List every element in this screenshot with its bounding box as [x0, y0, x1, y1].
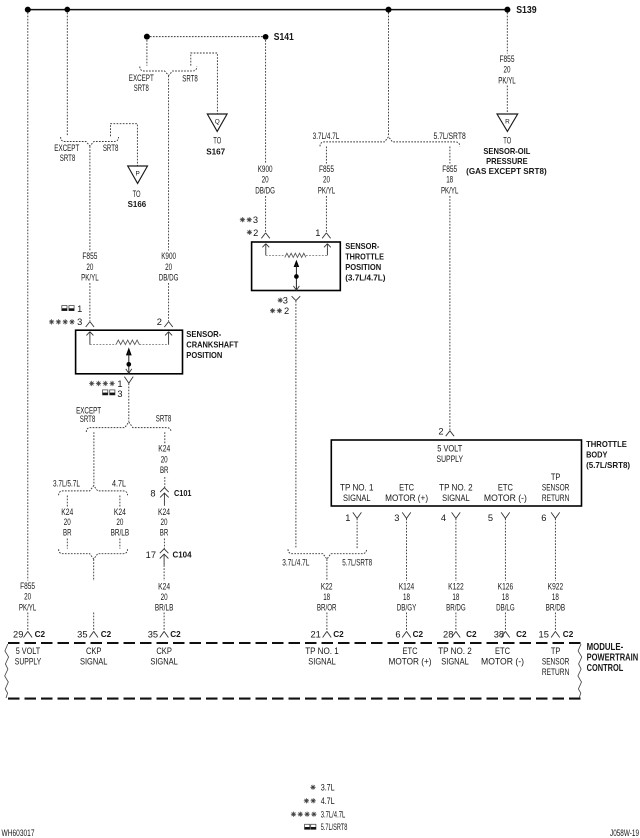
svg-text:PK/YL: PK/YL: [81, 273, 99, 283]
svg-text:15: 15: [539, 629, 549, 639]
svg-text:20: 20: [116, 517, 123, 527]
crank wiper bottom chevron: [126, 369, 132, 373]
wire: brace5 right output down to brace6: [119, 496, 121, 549]
node: junction dot at x388 on rail: [386, 7, 392, 13]
svg-text:3.7L: 3.7L: [321, 782, 335, 792]
svg-text:BR/OR: BR/OR: [317, 603, 337, 613]
svg-text:POSITION: POSITION: [345, 262, 381, 272]
svg-text:S141: S141: [274, 32, 294, 43]
wire W14: C101 to C104: [163, 504, 165, 549]
svg-text:SRT8: SRT8: [156, 414, 172, 424]
svg-text:CKP: CKP: [156, 646, 172, 656]
wire W11: crank output down to brace4: [128, 383, 130, 421]
brace5: split 3.7L/5.7L vs 4.7L: [59, 486, 128, 496]
wire W17: brace7 output down to terminal 21: [326, 559, 328, 631]
terminal: TB pin1 connector below box: [353, 512, 362, 518]
svg-text:35: 35: [77, 629, 87, 639]
svg-text:(5.7L/SRT8): (5.7L/SRT8): [586, 460, 630, 470]
svg-text:21: 21: [310, 629, 320, 639]
svg-text:MOTOR (-): MOTOR (-): [481, 656, 524, 666]
svg-text:DB/DG: DB/DG: [255, 185, 275, 195]
svg-text:SRT8: SRT8: [80, 414, 96, 424]
svg-text:BR/LB: BR/LB: [155, 603, 174, 613]
svg-text:18: 18: [323, 592, 330, 602]
svg-text:20: 20: [161, 592, 168, 602]
legend two boxes 5.7L/SRT8: [305, 824, 316, 829]
resistor zigzag TP: [285, 253, 306, 257]
wire: TB pin3 down to terminal 6: [406, 519, 408, 632]
svg-text:PK/YL: PK/YL: [441, 185, 459, 195]
svg-text:R: R: [505, 118, 510, 125]
wire W9: brace1 center down to crankshaft pin2: [168, 76, 170, 322]
triangle P: off-page connector to S166: [128, 166, 148, 183]
svg-text:ETC: ETC: [403, 646, 419, 656]
svg-text:SIGNAL: SIGNAL: [442, 493, 470, 503]
svg-text:4.7L: 4.7L: [112, 478, 126, 488]
svg-text:1: 1: [345, 513, 350, 523]
wire: brace3 right output to throttle body pin2: [449, 147, 451, 431]
svg-text:17: 17: [146, 550, 156, 560]
svg-text:5.7L/SRT8: 5.7L/SRT8: [433, 131, 465, 141]
svg-text:TO: TO: [213, 135, 221, 145]
svg-text:20: 20: [323, 175, 330, 185]
svg-text:SENSOR-OIL: SENSOR-OIL: [483, 146, 530, 156]
svg-text:18: 18: [452, 592, 459, 602]
svg-text:S139: S139: [516, 5, 537, 16]
svg-text:SRT8: SRT8: [182, 73, 198, 83]
svg-text:BR/LB: BR/LB: [111, 528, 130, 538]
wire W12: brace6 output down to terminal 35: [93, 559, 95, 631]
svg-text:(3.7L/4.7L): (3.7L/4.7L): [345, 273, 386, 283]
svg-text:3: 3: [394, 513, 399, 523]
terminal: TB pin3 connector below box: [402, 512, 411, 518]
svg-text:C101: C101: [174, 488, 192, 498]
svg-text:C104: C104: [173, 550, 192, 560]
svg-text:1: 1: [315, 228, 320, 238]
svg-text:THROTTLE: THROTTLE: [586, 439, 627, 449]
terminal 35 C2 (CKP right): [160, 631, 169, 637]
svg-text:2: 2: [438, 427, 443, 437]
svg-text:F855: F855: [319, 164, 334, 174]
connector C101 inline: [160, 488, 169, 504]
svg-text:PK/YL: PK/YL: [318, 185, 336, 195]
svg-text:SIGNAL: SIGNAL: [308, 656, 336, 666]
terminal: TB pin6 connector below box: [551, 512, 560, 518]
crank internal pin arrow right: [165, 332, 172, 345]
svg-text:K124: K124: [399, 582, 415, 592]
svg-text:TP NO. 2: TP NO. 2: [438, 646, 472, 656]
svg-text:SENSOR-: SENSOR-: [186, 329, 221, 339]
svg-text:C2: C2: [170, 629, 181, 639]
svg-text:POSITION: POSITION: [186, 350, 222, 360]
node: S141 dot right: [263, 34, 269, 40]
wire: brace3 left output to TP sensor pin1: [325, 147, 327, 233]
terminal 38 C2: [501, 631, 510, 637]
svg-text:MOTOR (+): MOTOR (+): [385, 493, 428, 503]
svg-text:ETC: ETC: [399, 483, 415, 493]
svg-text:K22: K22: [321, 582, 333, 592]
svg-text:SIGNAL: SIGNAL: [150, 656, 178, 666]
svg-text:18: 18: [403, 592, 410, 602]
svg-text:SIGNAL: SIGNAL: [80, 656, 108, 666]
svg-text:PK/YL: PK/YL: [498, 75, 516, 85]
svg-text:1: 1: [117, 379, 122, 389]
terminal: TB pin5 connector below box: [501, 512, 510, 518]
svg-text:K126: K126: [498, 582, 514, 592]
marker: 5.7L pin 1 (two boxes) at crank pin3: [62, 306, 74, 311]
crank wiper arrow: [126, 347, 132, 355]
svg-text:8: 8: [150, 489, 155, 499]
brace4: split EXCEPT SRT8 / SRT8 below crank: [86, 422, 171, 432]
wire W15: C104 down to terminal 35 right: [163, 565, 165, 631]
svg-text:P: P: [135, 170, 139, 177]
module PCM: torn right edge: [578, 644, 582, 698]
svg-text:4: 4: [441, 513, 446, 523]
svg-text:20: 20: [161, 454, 168, 464]
svg-text:C2: C2: [413, 629, 424, 639]
svg-text:CRANKSHAFT: CRANKSHAFT: [186, 339, 239, 349]
svg-text:20: 20: [165, 262, 172, 272]
TP internal horizontal: [266, 254, 285, 256]
svg-text:ETC: ETC: [498, 483, 514, 493]
marker: one star pin 2 at TP sensor: [247, 230, 252, 235]
marker: 3.7L/4.7L pin 3 (four stars) at crank pin3: [49, 319, 54, 324]
svg-text:DB/LG: DB/LG: [496, 603, 515, 613]
svg-text:C2: C2: [563, 629, 574, 639]
svg-text:18: 18: [446, 175, 453, 185]
wire W4: from S139 to oil pressure sensor: [506, 13, 508, 114]
terminal: TB pin2 connector: [446, 431, 454, 436]
svg-text:2: 2: [253, 228, 258, 238]
terminal: crank output connector below box: [124, 377, 133, 384]
svg-text:SRT8: SRT8: [60, 153, 76, 163]
svg-text:F855: F855: [442, 164, 457, 174]
svg-text:SUPPLY: SUPPLY: [15, 656, 42, 666]
svg-text:F855: F855: [500, 54, 515, 64]
svg-text:3.7L/4.7L: 3.7L/4.7L: [321, 809, 346, 819]
svg-text:SENSOR-: SENSOR-: [345, 241, 379, 251]
terminal 21 C2: [323, 631, 332, 637]
svg-text:TP NO. 1: TP NO. 1: [305, 646, 339, 656]
brace7: merge 3.7L/4.7L with 5.7L/SRT8: [288, 549, 367, 559]
svg-text:3: 3: [117, 389, 122, 399]
wire: brace5 left output down to brace6: [66, 496, 68, 549]
svg-text:MOTOR (+): MOTOR (+): [389, 656, 432, 666]
svg-text:CONTROL: CONTROL: [587, 663, 624, 674]
legend four stars 3.7L/4.7L: [291, 812, 296, 817]
node: junction dot second on rail: [64, 7, 70, 13]
svg-text:PRESSURE: PRESSURE: [486, 156, 528, 166]
svg-text:RETURN: RETURN: [542, 493, 570, 503]
svg-text:3.7L/4.7L: 3.7L/4.7L: [313, 131, 340, 141]
svg-text:35: 35: [148, 629, 158, 639]
svg-text:29: 29: [13, 629, 23, 639]
wire W3: from rail to engine split: [388, 13, 390, 137]
marker: one star pin 3 below TP: [278, 298, 283, 303]
svg-text:F855: F855: [82, 251, 97, 261]
svg-text:6: 6: [541, 513, 546, 523]
svg-text:3: 3: [283, 295, 288, 305]
svg-text:POWERTRAIN: POWERTRAIN: [587, 652, 639, 663]
wire: TB pin5 down to terminal 38: [504, 519, 506, 632]
svg-text:K24: K24: [158, 582, 170, 592]
svg-text:38: 38: [494, 629, 504, 639]
svg-text:DB/DG: DB/DG: [159, 273, 179, 283]
terminal: TP output connector below box: [292, 296, 301, 300]
svg-text:TP NO. 2: TP NO. 2: [439, 483, 473, 493]
svg-text:C2: C2: [333, 629, 344, 639]
svg-text:6: 6: [395, 629, 400, 639]
svg-text:TP: TP: [551, 646, 561, 656]
svg-text:EXCEPT: EXCEPT: [54, 143, 79, 153]
wire W8: brace2 right branch to P/S166: [111, 124, 138, 166]
svg-text:K900: K900: [258, 164, 273, 174]
svg-text:SIGNAL: SIGNAL: [441, 656, 469, 666]
svg-text:K24: K24: [114, 507, 126, 517]
svg-text:BR: BR: [160, 528, 169, 538]
svg-text:C2: C2: [466, 629, 477, 639]
terminal 6 C2: [402, 631, 411, 637]
svg-text:TO: TO: [503, 135, 511, 145]
node S139: splice dot: [504, 7, 510, 13]
marker: two stars pin 3 at TP sensor: [240, 217, 245, 222]
svg-text:BR: BR: [63, 528, 72, 538]
svg-text:20: 20: [262, 175, 269, 185]
svg-text:20: 20: [64, 517, 71, 527]
marker: four stars pin 1 below crank: [89, 381, 94, 386]
svg-text:TO: TO: [133, 189, 141, 199]
brace2: merge EXCEPT SRT8 / SRT8 upper left: [61, 137, 119, 146]
svg-text:SIGNAL: SIGNAL: [343, 493, 371, 503]
svg-text:5 VOLT: 5 VOLT: [16, 646, 41, 656]
svg-text:DB/GY: DB/GY: [397, 603, 417, 613]
terminal: crank pin3 connector: [86, 322, 94, 327]
svg-text:28: 28: [443, 629, 453, 639]
svg-text:C2: C2: [101, 629, 112, 639]
svg-text:BODY: BODY: [586, 449, 608, 459]
svg-text:S167: S167: [206, 147, 225, 157]
svg-text:5 VOLT: 5 VOLT: [437, 443, 463, 453]
marker: two stars pin 2 below TP: [270, 308, 275, 313]
svg-text:BR/DG: BR/DG: [446, 603, 466, 613]
svg-text:RETURN: RETURN: [542, 667, 570, 677]
terminal: TB pin4 connector below box: [452, 512, 461, 518]
wire: TB pin4 down to terminal 28: [455, 519, 457, 632]
svg-text:BR: BR: [160, 465, 169, 475]
svg-text:PK/YL: PK/YL: [19, 603, 37, 613]
svg-text:TP: TP: [551, 472, 561, 482]
svg-text:Q: Q: [215, 118, 220, 125]
svg-text:2: 2: [157, 317, 162, 327]
svg-text:J058W-19: J058W-19: [610, 828, 639, 838]
wire W1: left 5V supply wire x=28: [27, 13, 29, 632]
svg-text:4.7L: 4.7L: [321, 796, 335, 806]
svg-text:F855: F855: [20, 581, 35, 591]
connector C104 inline: [160, 549, 169, 565]
svg-text:TP NO. 1: TP NO. 1: [340, 483, 374, 493]
svg-text:SRT8: SRT8: [103, 143, 119, 153]
wire W13: brace4 right output down to C101: [164, 432, 166, 487]
terminal 15 C2: [551, 631, 560, 637]
module PCM: dashed top border: [8, 642, 581, 644]
brace1: merge EXCEPT SRT8 / SRT8 near S141: [140, 67, 197, 76]
crank internal pin arrow left: [86, 332, 93, 345]
wire W5: from S141 left dot down to brace1: [146, 40, 148, 66]
svg-text:3.7L/5.7L: 3.7L/5.7L: [53, 478, 80, 488]
marker: two boxes pin 3 below crank: [103, 390, 115, 395]
svg-text:MODULE-: MODULE-: [587, 642, 624, 653]
wire W10: brace2 center down to crankshaft pin3: [89, 146, 91, 321]
svg-text:SRT8: SRT8: [134, 83, 149, 93]
crank internal horizontal: [90, 344, 116, 346]
svg-text:20: 20: [24, 592, 31, 602]
svg-text:K24: K24: [158, 444, 170, 454]
wire: TB pin6 down to terminal 15: [554, 519, 556, 632]
sensor crankshaft position: box: [76, 330, 183, 374]
svg-text:3.7L/4.7L: 3.7L/4.7L: [282, 558, 309, 568]
svg-text:MOTOR (-): MOTOR (-): [484, 493, 527, 503]
svg-text:3: 3: [253, 215, 258, 225]
wire W16: TP output down to brace7: [295, 301, 297, 549]
node S141: splice dot left: [144, 34, 150, 40]
svg-text:20: 20: [86, 262, 93, 272]
svg-text:1: 1: [77, 304, 82, 314]
svg-text:K900: K900: [161, 251, 176, 261]
svg-text:18: 18: [502, 592, 509, 602]
terminal: crank pin2 connector: [164, 322, 172, 327]
terminal 35 C2 (CKP): [89, 631, 98, 637]
wire: brace4 left output down to brace5: [93, 432, 95, 485]
TP wiper bottom chevron: [293, 286, 299, 290]
module PCM: torn left edge: [5, 644, 9, 698]
throttle body: box: [331, 440, 581, 506]
svg-text:20: 20: [504, 65, 511, 75]
svg-text:5: 5: [488, 513, 493, 523]
wire W6: K900 wire from S141 right dot to TP sensor pin2: [265, 40, 267, 233]
legend star 3.7L: [310, 785, 315, 790]
terminal 28 C2: [452, 631, 461, 637]
wire: TB pin1 down to brace7: [356, 519, 358, 549]
node: TP wiper dot: [294, 274, 299, 279]
svg-text:BR/DB: BR/DB: [546, 603, 566, 613]
triangle Q: off-page connector to S167: [207, 114, 227, 131]
svg-text:C2: C2: [35, 629, 46, 639]
TP wiper arrow: [294, 260, 300, 267]
brace3: split 3.7L/4.7L vs 5.7L/SRT8: [320, 137, 460, 147]
svg-text:2: 2: [284, 306, 289, 316]
svg-text:5.7L/SRT8: 5.7L/SRT8: [321, 822, 348, 832]
svg-text:K122: K122: [448, 582, 464, 592]
svg-text:K922: K922: [548, 582, 564, 592]
svg-text:K24: K24: [158, 507, 170, 517]
svg-text:5.7L/SRT8: 5.7L/SRT8: [342, 558, 372, 568]
svg-text:EXCEPT: EXCEPT: [129, 73, 154, 83]
svg-text:(GAS EXCEPT SRT8): (GAS EXCEPT SRT8): [466, 166, 547, 176]
node: crank wiper dot: [126, 362, 131, 367]
svg-text:THROTTLE: THROTTLE: [345, 251, 384, 261]
wire W7: brace1 right branch to Q/S167: [191, 53, 218, 113]
sensor throttle position: box: [252, 242, 341, 291]
svg-text:CKP: CKP: [86, 646, 102, 656]
svg-text:C2: C2: [516, 629, 527, 639]
node: junction dot left on rail: [25, 7, 31, 13]
wire: top supply rail: [27, 9, 510, 11]
terminal 29 C2: [24, 631, 33, 637]
svg-text:SENSOR: SENSOR: [542, 656, 570, 666]
module PCM: dashed bottom border: [8, 698, 581, 700]
terminal: TP pin1 connector: [322, 233, 330, 238]
TP internal pin arrow right: [324, 244, 331, 256]
legend two stars 4.7L: [304, 798, 309, 803]
svg-text:ETC: ETC: [495, 646, 511, 656]
svg-text:K24: K24: [61, 507, 73, 517]
svg-text:SUPPLY: SUPPLY: [437, 454, 464, 464]
svg-text:WH603017: WH603017: [2, 828, 35, 838]
wire W2: from rail to EXCEPT SRT8 split: [66, 13, 68, 137]
wire: S141 rail: [147, 36, 266, 38]
brace6: merge below K24 pair: [59, 549, 128, 559]
svg-text:20: 20: [161, 517, 168, 527]
triangle R: off-page connector to oil pressure sensor: [497, 114, 518, 131]
svg-text:3: 3: [77, 317, 82, 327]
svg-text:S166: S166: [128, 199, 147, 209]
svg-text:18: 18: [552, 592, 559, 602]
resistor zigzag crank: [116, 340, 139, 345]
terminal: TP pin2 connector: [261, 233, 269, 238]
TP internal pin arrow left: [262, 244, 269, 256]
svg-text:SENSOR: SENSOR: [542, 483, 570, 493]
